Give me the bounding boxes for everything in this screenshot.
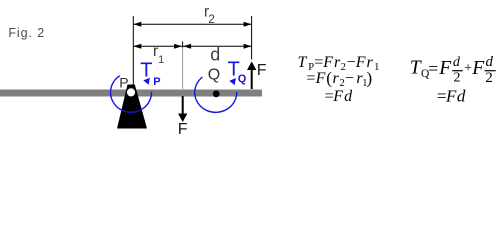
svg-text:=: =	[306, 70, 315, 87]
svg-text:d: d	[344, 88, 353, 105]
svg-text:P: P	[119, 75, 128, 91]
svg-text:Q: Q	[208, 66, 220, 83]
svg-text:2: 2	[485, 70, 492, 86]
svg-text:T: T	[298, 54, 308, 71]
svg-text:F: F	[257, 62, 267, 79]
svg-text:+: +	[464, 60, 472, 75]
svg-text:P: P	[153, 76, 160, 88]
svg-text:F: F	[315, 70, 326, 87]
svg-text:d: d	[457, 86, 466, 105]
svg-text:): )	[367, 68, 373, 87]
svg-text:T: T	[410, 57, 422, 78]
svg-text:F: F	[438, 58, 452, 79]
svg-text:Q: Q	[238, 73, 247, 85]
svg-text:1: 1	[158, 54, 164, 66]
svg-text:F: F	[471, 58, 485, 79]
svg-text:2: 2	[208, 12, 215, 26]
svg-text:d: d	[453, 55, 461, 70]
svg-text:2: 2	[454, 71, 461, 86]
svg-text:r: r	[333, 70, 340, 87]
svg-text:T: T	[140, 60, 152, 82]
svg-text:F: F	[355, 54, 366, 71]
svg-text:d: d	[210, 44, 220, 64]
svg-text:Fig. 2: Fig. 2	[8, 26, 45, 40]
svg-text:(: (	[326, 68, 332, 87]
svg-text:F: F	[445, 86, 457, 105]
svg-text:−: −	[345, 70, 354, 87]
svg-text:=: =	[314, 54, 323, 71]
svg-text:1: 1	[374, 62, 379, 73]
svg-text:d: d	[486, 54, 494, 70]
svg-text:−: −	[347, 54, 356, 71]
svg-text:F: F	[178, 121, 188, 138]
svg-text:F: F	[332, 88, 343, 105]
svg-text:=: =	[428, 59, 438, 79]
